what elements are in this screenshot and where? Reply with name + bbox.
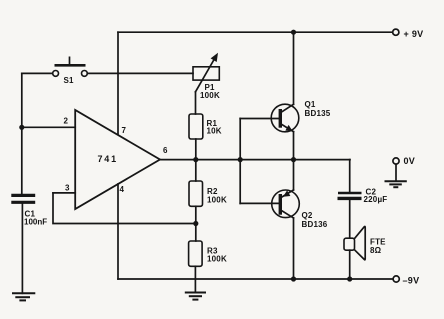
svg-text:100K: 100K <box>200 91 220 100</box>
op-amp U1 741 <box>75 110 160 209</box>
wire R2 to feedback node <box>195 206 197 241</box>
svg-text:100K: 100K <box>207 255 227 264</box>
terminal -9V <box>393 276 419 286</box>
junction node Q2 collector/bottom rail <box>291 276 296 281</box>
junction node collector/top rail <box>291 30 296 35</box>
wire to Q2 base <box>240 202 278 204</box>
svg-text:7: 7 <box>122 126 127 135</box>
svg-text:10K: 10K <box>207 127 222 136</box>
potentiometer P1 <box>193 53 220 100</box>
svg-text:6: 6 <box>163 146 168 155</box>
resistor R3 <box>189 241 227 266</box>
svg-text:–9V: –9V <box>403 276 420 286</box>
ground below R3 <box>185 293 206 300</box>
transistor Q1 BD135 <box>271 100 331 132</box>
pin 3 wire <box>53 192 75 194</box>
terminal +9V <box>393 29 424 39</box>
wire R1 to output node <box>195 139 197 160</box>
wire top +9V rail <box>118 31 393 33</box>
wire Q2 collector to -9V rail <box>293 218 295 279</box>
switch S1 <box>53 57 88 86</box>
transistor Q2 BD136 <box>272 190 328 229</box>
wire C2 to speaker <box>349 200 351 238</box>
svg-text:220µF: 220µF <box>364 195 388 204</box>
pin 2 wire <box>22 126 75 128</box>
ground below C1 <box>12 293 35 300</box>
wire C1 to ground <box>21 204 23 293</box>
wire output corner to C2 <box>349 160 351 192</box>
svg-text:100nF: 100nF <box>24 218 47 227</box>
wire Q1 collector to rail <box>293 32 295 104</box>
wire speaker to -9V rail <box>349 250 351 279</box>
wire output to R2 <box>195 160 197 181</box>
capacitor C2 <box>338 188 388 205</box>
svg-text:0V: 0V <box>404 156 416 166</box>
pin 4 wire to -9V rail <box>117 184 119 279</box>
wire R3 to ground <box>194 266 196 292</box>
svg-text:100K: 100K <box>207 196 227 205</box>
svg-text:+ 9V: + 9V <box>404 29 424 39</box>
junction node R1/output <box>193 157 198 162</box>
wire S1 left lead <box>22 72 53 74</box>
junction node bases/output <box>238 157 243 162</box>
wire pin 7 supply drop <box>117 32 119 134</box>
wire output pin 6 <box>160 159 350 161</box>
svg-text:3: 3 <box>65 184 70 193</box>
ground 0V reference <box>385 181 407 187</box>
junction node pin2/left branch <box>19 125 24 130</box>
wire 0V to ground <box>395 164 397 181</box>
resistor R1 <box>189 114 222 139</box>
junction node speaker/bottom rail <box>347 276 352 281</box>
wire S1 to P1 <box>87 72 193 74</box>
terminal 0V <box>393 156 415 166</box>
svg-text:BD135: BD135 <box>305 109 331 118</box>
wire Q1 emitter to node <box>293 132 295 160</box>
wire to Q1 base <box>240 118 278 120</box>
resistor R2 <box>189 181 227 206</box>
junction node R2/R3/feedback <box>193 221 198 226</box>
svg-text:741: 741 <box>98 154 118 164</box>
svg-text:2: 2 <box>64 117 69 126</box>
wire feedback loop <box>53 193 196 224</box>
wire base drive vertical <box>239 119 241 204</box>
svg-text:Q2: Q2 <box>302 211 313 220</box>
wire left branch vertical <box>21 73 23 194</box>
svg-text:8Ω: 8Ω <box>370 246 382 255</box>
svg-text:4: 4 <box>120 185 125 194</box>
svg-text:BD136: BD136 <box>302 220 328 229</box>
svg-text:S1: S1 <box>64 76 75 85</box>
wire emitters node to Q2 <box>293 160 295 190</box>
wire P1 wiper to R1 <box>195 92 197 114</box>
capacitor C1 <box>11 195 47 226</box>
junction node emitters/output <box>291 157 296 162</box>
svg-text:Q1: Q1 <box>305 100 316 109</box>
wire bottom -9V rail <box>118 278 393 280</box>
speaker FTE <box>344 226 386 259</box>
